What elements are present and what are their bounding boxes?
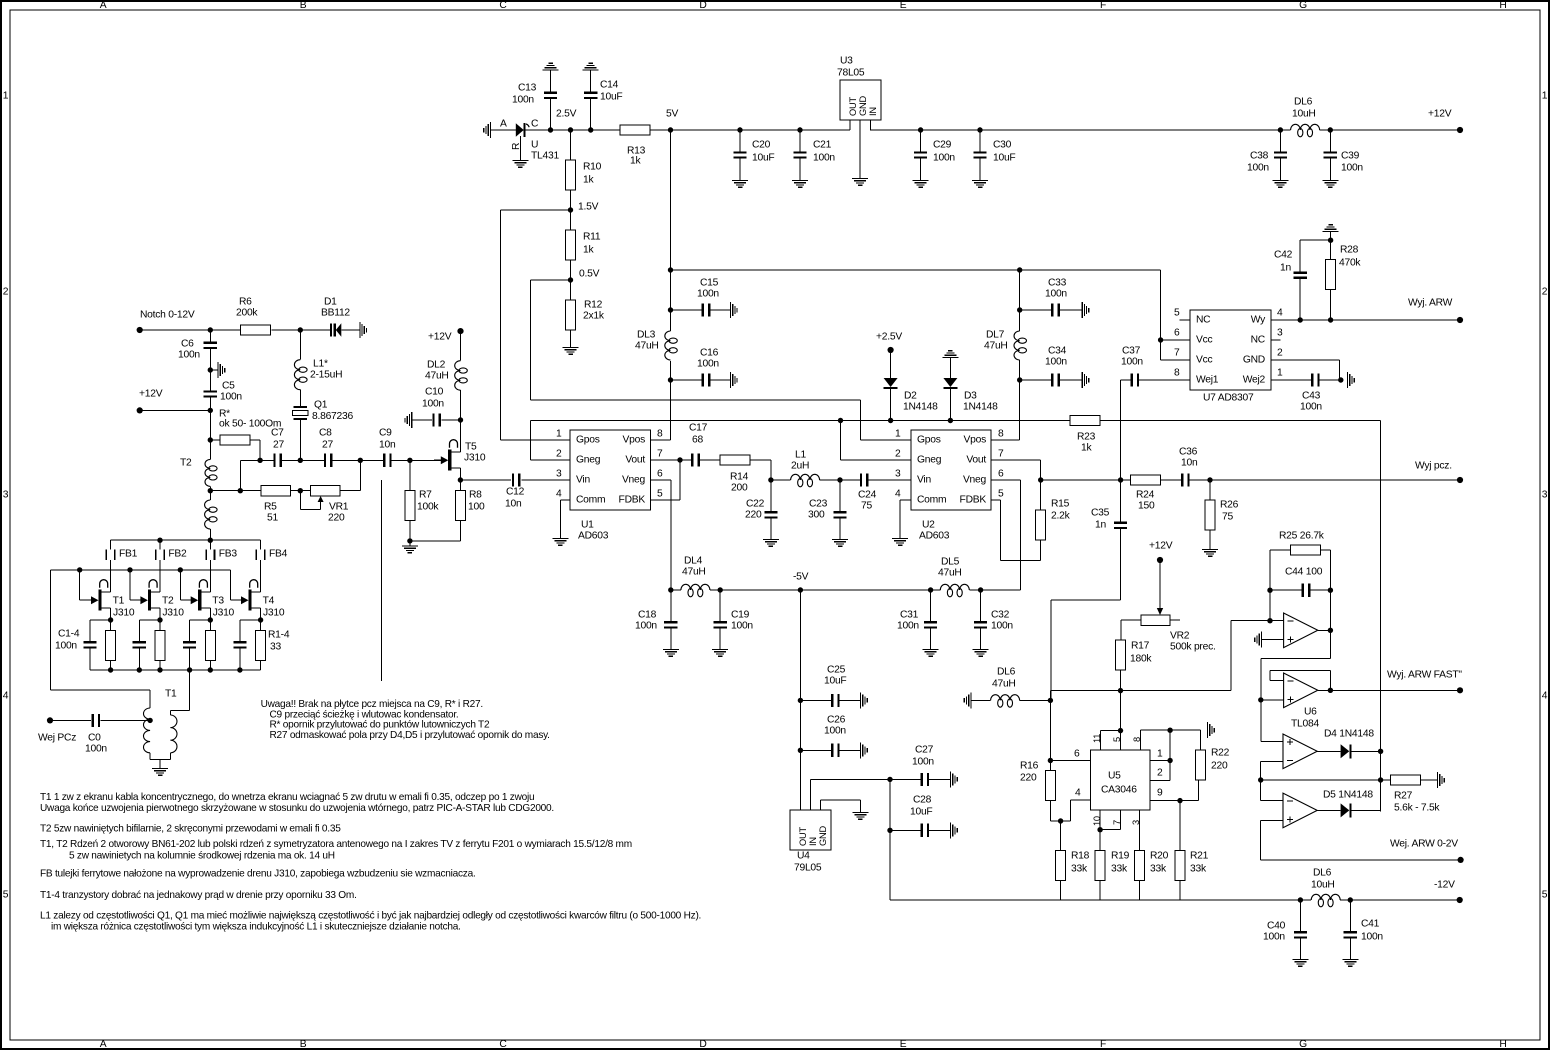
wire +12V arrow to VR2 wiper <box>1157 560 1163 615</box>
capacitor C13 <box>512 71 557 131</box>
svg-text:C16: C16 <box>700 348 719 359</box>
pin numbers U2 right <box>998 429 1004 500</box>
pin 1 of U7 <box>1277 368 1283 379</box>
svg-text:0.5V: 0.5V <box>579 269 600 280</box>
ground below U3 <box>852 178 868 186</box>
resistor R28 <box>1326 232 1362 320</box>
resistor R27 <box>1391 775 1441 814</box>
svg-text:L1*: L1* <box>313 359 328 370</box>
inductor L1 2uH <box>771 450 840 487</box>
capacitor C4 <box>233 620 246 670</box>
node DL6/C35/R16 <box>1048 698 1053 703</box>
ground right of C28 <box>950 822 958 838</box>
ground right of R27 <box>1437 772 1445 788</box>
svg-text:8.867236: 8.867236 <box>312 411 353 422</box>
transistor T1 J310 <box>84 580 135 620</box>
wire op3 inverting to R27 node <box>1258 761 1283 782</box>
amplifier U2 AD603 <box>911 430 991 542</box>
ground below C20 <box>732 180 748 188</box>
resistor R26 <box>1205 480 1239 549</box>
ground right of C43 <box>1347 372 1355 388</box>
svg-text:C26: C26 <box>827 715 846 726</box>
svg-text:R24: R24 <box>1136 490 1155 501</box>
svg-text:R20: R20 <box>1150 851 1169 862</box>
ground below C29 <box>913 180 929 188</box>
svg-text:Gneg: Gneg <box>917 455 942 466</box>
resistor R15 <box>1036 477 1071 560</box>
capacitor C17 <box>689 423 720 467</box>
svg-text:R12: R12 <box>584 300 603 311</box>
svg-text:C43: C43 <box>1302 391 1321 402</box>
op2 feedback loop <box>1270 670 1330 690</box>
capacitor C2 <box>133 620 146 670</box>
port Wyj pcz. <box>1415 461 1463 484</box>
varicap diode D1 BB112 <box>300 297 359 337</box>
svg-text:2: 2 <box>1542 287 1548 298</box>
source node T2 <box>139 617 162 622</box>
svg-text:10n: 10n <box>1181 458 1198 469</box>
svg-text:1.5V: 1.5V <box>578 202 599 213</box>
ferrite bead FB3 <box>205 540 237 592</box>
svg-text:1k: 1k <box>583 245 594 256</box>
svg-text:TL431: TL431 <box>531 151 559 162</box>
pin 9 of U5 <box>1150 780 1199 804</box>
shunt regulator U TL431 <box>511 123 559 168</box>
svg-text:H: H <box>1499 0 1506 11</box>
svg-text:R23: R23 <box>1077 432 1096 443</box>
wire R7/R8 ground bus <box>407 538 460 545</box>
port +12V (T5) <box>428 328 464 343</box>
voltage regulator U3 78L05 <box>837 56 881 179</box>
svg-text:500k prec.: 500k prec. <box>1170 642 1216 653</box>
ground right of C34 <box>1082 372 1090 388</box>
note T1-4 matching <box>40 890 357 901</box>
node 1.5V <box>568 202 599 213</box>
svg-text:1n: 1n <box>1095 520 1106 531</box>
svg-text:Vneg: Vneg <box>622 475 646 486</box>
svg-text:3: 3 <box>895 469 901 480</box>
node op2 + input <box>1258 697 1283 702</box>
pin 6 of U7 <box>1158 328 1190 343</box>
svg-text:220: 220 <box>328 513 345 524</box>
wire 2.5V/5V rail <box>491 129 1460 131</box>
svg-text:100n: 100n <box>1045 357 1067 368</box>
svg-text:1n: 1n <box>1280 263 1291 274</box>
svg-text:T5: T5 <box>465 442 477 453</box>
svg-text:8: 8 <box>1174 368 1180 379</box>
resistor R12 <box>566 280 605 347</box>
svg-text:H: H <box>1499 1039 1506 1050</box>
node R14/L1/C22 <box>768 477 773 482</box>
ground right of pin8 U5 <box>1207 722 1215 738</box>
ground below U1 Comm <box>552 538 568 546</box>
svg-text:10n: 10n <box>379 440 396 451</box>
svg-text:Wyj. ARW: Wyj. ARW <box>1408 298 1453 309</box>
svg-text:R10: R10 <box>583 162 602 173</box>
svg-text:100n: 100n <box>1045 289 1067 300</box>
svg-text:D1: D1 <box>324 297 337 308</box>
label C1-4 <box>55 629 80 652</box>
svg-text:10uH: 10uH <box>1292 109 1316 120</box>
capacitor C5 <box>204 370 243 410</box>
pin 2 of U7 <box>1277 348 1283 359</box>
svg-text:100n: 100n <box>422 399 444 410</box>
svg-text:C: C <box>531 119 539 130</box>
op-amp U6b <box>1284 673 1318 708</box>
wire 5V sub-rail y=270 <box>668 267 1161 360</box>
svg-text:-12V: -12V <box>1434 880 1455 891</box>
svg-text:5: 5 <box>998 489 1004 500</box>
inductor DL6 10uH (top) <box>1278 97 1333 137</box>
svg-text:33k: 33k <box>1071 864 1088 875</box>
svg-text:100n: 100n <box>85 744 107 755</box>
svg-text:C31: C31 <box>900 610 919 621</box>
node R5/VR1 <box>291 488 311 493</box>
wire Gneg bus <box>531 418 1381 460</box>
gate wire T4 <box>231 570 234 600</box>
capacitor C16 <box>668 348 730 387</box>
svg-text:FB1: FB1 <box>119 549 138 560</box>
pin 7 of U7 <box>1161 348 1190 361</box>
svg-text:100n: 100n <box>912 757 934 768</box>
capacitor C20 <box>733 127 774 180</box>
wire R5 row <box>210 460 261 493</box>
resistor R16 <box>1020 761 1071 822</box>
svg-text:8: 8 <box>1132 737 1142 742</box>
ground below C41 <box>1342 959 1358 967</box>
pin 4 of U5 <box>1058 788 1091 824</box>
svg-text:7: 7 <box>1112 820 1122 825</box>
svg-text:47uH: 47uH <box>938 568 962 579</box>
net -5V rail <box>668 572 1020 597</box>
svg-text:100n: 100n <box>897 621 919 632</box>
label U6 TL084 <box>1291 707 1319 730</box>
svg-text:2: 2 <box>895 449 901 460</box>
wire op4 inverting <box>1261 780 1283 800</box>
wire C27/C28 bus down to -12V bus <box>890 779 1300 900</box>
pin 3 of U7 <box>1271 328 1283 341</box>
svg-text:C10: C10 <box>425 387 444 398</box>
capacitor C37 <box>1121 346 1190 481</box>
svg-text:VR2: VR2 <box>1170 631 1190 642</box>
svg-text:A: A <box>100 0 107 11</box>
resistor R22 <box>1195 730 1229 780</box>
pin 8 of U7 <box>1174 368 1180 379</box>
svg-text:NC: NC <box>1251 335 1266 346</box>
svg-text:100n: 100n <box>824 726 846 737</box>
svg-text:Gpos: Gpos <box>917 435 941 446</box>
source node T3 <box>190 617 213 622</box>
diode D3 1N4148 <box>943 358 998 423</box>
svg-text:1k: 1k <box>1081 443 1092 454</box>
wire U2 FDBK to R15 <box>991 500 1041 560</box>
wire Notch row <box>140 327 303 332</box>
transistor T4 J310 <box>234 580 285 620</box>
ground below C31 <box>923 649 939 657</box>
capacitor C39 <box>1324 130 1364 180</box>
svg-text:AD603: AD603 <box>578 531 609 542</box>
voltage regulator U4 79L05 <box>790 810 831 874</box>
svg-text:im większa różnica częstotliwo: im większa różnica częstotliwości tym wi… <box>51 922 461 933</box>
note FB beads <box>40 868 476 879</box>
svg-text:DL5: DL5 <box>941 557 960 568</box>
capacitor C7 <box>271 428 284 467</box>
svg-text:B: B <box>300 0 307 11</box>
ground below U2 Comm <box>892 538 908 546</box>
svg-text:220: 220 <box>745 510 762 521</box>
svg-text:U6: U6 <box>1304 707 1317 718</box>
svg-text:C42: C42 <box>1274 250 1293 261</box>
wire T1 bottom to ground <box>150 760 170 768</box>
svg-text:Comm: Comm <box>576 495 605 506</box>
wire source bottom bus <box>90 667 261 672</box>
source node T4 <box>240 617 263 622</box>
svg-text:33k: 33k <box>1190 864 1207 875</box>
svg-text:2: 2 <box>556 449 562 460</box>
svg-text:C37: C37 <box>1122 346 1141 357</box>
port Wej PCz <box>38 717 76 743</box>
ground right of D1 <box>359 322 367 338</box>
svg-text:3: 3 <box>556 469 562 480</box>
wire U2 Vneg down <box>991 480 1021 590</box>
svg-text:4: 4 <box>556 489 562 500</box>
svg-text:NC: NC <box>1196 315 1211 326</box>
svg-text:2: 2 <box>1157 768 1163 779</box>
node DL2/C10/T5 drain <box>458 417 463 422</box>
svg-text:2: 2 <box>3 287 9 298</box>
svg-text:10n: 10n <box>505 499 522 510</box>
svg-text:100n: 100n <box>1121 357 1143 368</box>
resistor R25 26.7k <box>1279 531 1325 556</box>
svg-text:D: D <box>699 1039 706 1050</box>
svg-text:C: C <box>499 1039 507 1050</box>
svg-text:CA3046: CA3046 <box>1101 785 1137 796</box>
svg-text:Uwaga!! Brak na płytce pcz mie: Uwaga!! Brak na płytce pcz miejsca na C9… <box>261 699 483 710</box>
capacitor C25 <box>798 665 860 708</box>
svg-text:33k: 33k <box>1111 864 1128 875</box>
svg-text:Vpos: Vpos <box>623 435 646 446</box>
wire U2 Vout to Wyj pcz node <box>991 460 1041 480</box>
ground below C21 <box>792 180 808 188</box>
svg-text:C20: C20 <box>752 140 771 151</box>
svg-text:Vneg: Vneg <box>963 475 987 486</box>
resistor R* <box>210 435 260 460</box>
svg-text:FB4: FB4 <box>269 549 288 560</box>
svg-text:R15: R15 <box>1051 499 1070 510</box>
svg-text:10uF: 10uF <box>993 153 1015 164</box>
svg-text:C36: C36 <box>1179 447 1198 458</box>
transistor T2 J310 <box>133 580 184 620</box>
svg-text:C: C <box>499 0 507 11</box>
capacitor C44 100 <box>1270 567 1330 597</box>
svg-text:DL6: DL6 <box>1294 97 1313 108</box>
svg-text:3: 3 <box>1542 490 1548 501</box>
svg-text:C15: C15 <box>700 278 719 289</box>
svg-text:6: 6 <box>1174 328 1180 339</box>
ground below R12 <box>563 347 579 355</box>
svg-text:BB112: BB112 <box>321 308 350 319</box>
svg-text:100n: 100n <box>991 621 1013 632</box>
wire 5V down to U1 Vpos <box>651 130 671 440</box>
ground above C13 <box>543 63 559 71</box>
svg-text:200k: 200k <box>236 308 258 319</box>
ground above C14 <box>583 63 599 71</box>
svg-text:U: U <box>531 140 538 151</box>
svg-text:FDBK: FDBK <box>619 495 646 506</box>
svg-text:78L05: 78L05 <box>837 68 865 79</box>
resistor R5 <box>261 486 290 524</box>
svg-text:100n: 100n <box>697 359 719 370</box>
svg-text:5: 5 <box>3 890 9 901</box>
svg-text:100n: 100n <box>1361 932 1383 943</box>
svg-text:C29: C29 <box>933 140 952 151</box>
svg-text:T2: T2 <box>162 596 174 607</box>
svg-text:Vpos: Vpos <box>964 435 987 446</box>
capacitor C8 <box>319 428 333 467</box>
svg-text:FDBK: FDBK <box>960 495 987 506</box>
svg-text:47uH: 47uH <box>635 341 659 352</box>
row labels 1-5 <box>3 91 1548 901</box>
junction dots 2.5V rail <box>548 127 594 132</box>
ferrite bead FB4 <box>256 540 288 592</box>
op-amp U6d <box>1283 793 1317 828</box>
crystal Q1 8.867236 <box>293 400 354 461</box>
wire op1 output to op2 <box>1261 628 1333 700</box>
svg-text:C0: C0 <box>88 733 101 744</box>
svg-text:R1-4: R1-4 <box>268 630 290 641</box>
svg-text:DL2: DL2 <box>427 360 446 371</box>
wire Wyj ARW rail <box>1271 317 1460 322</box>
note cores <box>40 839 632 861</box>
svg-text:OUT: OUT <box>848 97 858 116</box>
capacitor C18 <box>635 590 677 649</box>
capacitor C36 <box>1179 447 1198 487</box>
transistor T3 J310 <box>184 580 235 620</box>
svg-text:GND: GND <box>1243 355 1265 366</box>
pin numbers U1 left <box>556 429 562 500</box>
capacitor C10 <box>405 387 461 429</box>
wire U7 GND pin to ground <box>1271 360 1340 380</box>
svg-text:2uH: 2uH <box>791 461 809 472</box>
port +12V (left) <box>137 389 163 414</box>
resistor R10 <box>566 130 602 210</box>
svg-text:R27: R27 <box>1394 791 1413 802</box>
wire op2+ to op3+ <box>1261 700 1283 741</box>
svg-text:220: 220 <box>1020 773 1037 784</box>
svg-text:33k: 33k <box>1150 864 1167 875</box>
ground right of C26 <box>860 742 868 758</box>
svg-text:3: 3 <box>1131 820 1141 825</box>
svg-text:L1 zalezy od częstotliwości Q1: L1 zalezy od częstotliwości Q1, Q1 ma mi… <box>40 910 701 921</box>
svg-text:J310: J310 <box>263 608 285 619</box>
svg-text:3: 3 <box>1277 328 1283 339</box>
svg-text:VR1: VR1 <box>329 502 349 513</box>
svg-text:R17: R17 <box>1131 641 1150 652</box>
port -12V <box>1434 880 1463 904</box>
svg-text:Gpos: Gpos <box>576 435 600 446</box>
ground below R7 <box>402 546 418 554</box>
svg-text:U7 AD8307: U7 AD8307 <box>1203 393 1254 404</box>
resistor R20 <box>1135 850 1169 900</box>
svg-text:R22: R22 <box>1211 748 1230 759</box>
svg-text:T2 5zw nawiniętych bifilarnie,: T2 5zw nawiniętych bifilarnie, 2 skręcon… <box>40 823 341 834</box>
svg-text:IN: IN <box>808 837 818 846</box>
label R* <box>219 409 281 430</box>
resistor R24 <box>1131 475 1161 512</box>
svg-text:33: 33 <box>270 642 281 653</box>
svg-text:5: 5 <box>1112 737 1122 742</box>
svg-text:C44 100: C44 100 <box>1285 567 1323 578</box>
svg-text:A: A <box>500 119 507 130</box>
svg-text:Wy: Wy <box>1251 315 1266 326</box>
svg-text:C30: C30 <box>993 140 1012 151</box>
svg-text:R6: R6 <box>239 297 252 308</box>
svg-text:C24: C24 <box>858 490 877 501</box>
svg-text:100k: 100k <box>417 502 439 513</box>
transformer T1 primary winding <box>144 689 178 760</box>
svg-text:100n: 100n <box>697 289 719 300</box>
ground right of C16 <box>730 372 738 388</box>
svg-text:Vcc: Vcc <box>1196 355 1213 366</box>
svg-text:FB3: FB3 <box>219 549 238 560</box>
svg-text:FB tulejki ferrytowe nałożone: FB tulejki ferrytowe nałożone na wyprowa… <box>40 868 476 879</box>
capacitor C33 <box>1017 278 1082 317</box>
svg-text:3: 3 <box>3 490 9 501</box>
transformer T2 <box>180 440 217 540</box>
resistor R4 <box>256 620 266 670</box>
pin 4 of U7 <box>1277 308 1283 319</box>
svg-text:8: 8 <box>657 429 663 440</box>
resistor R1 <box>106 620 116 670</box>
svg-text:C14: C14 <box>600 80 619 91</box>
svg-text:10uH: 10uH <box>1311 880 1335 891</box>
svg-text:R5: R5 <box>264 502 277 513</box>
wire gate bus <box>51 567 231 572</box>
svg-text:2x1k: 2x1k <box>583 311 605 322</box>
diode D4 1N4148 <box>1317 729 1380 759</box>
svg-text:C5: C5 <box>222 381 235 392</box>
capacitor C27 <box>887 745 950 787</box>
svg-text:C35: C35 <box>1091 508 1110 519</box>
capacitor C38 <box>1247 130 1287 180</box>
gate wire T2 <box>130 570 133 600</box>
transformer T1 secondary winding <box>170 670 189 760</box>
svg-text:D5 1N4148: D5 1N4148 <box>1323 790 1373 801</box>
ground above R28 <box>1323 224 1339 232</box>
pin 5 of U7 <box>1174 308 1190 321</box>
svg-text:F: F <box>1100 0 1106 11</box>
svg-text:T1-4 tranzystory dobrać na jed: T1-4 tranzystory dobrać na jednakowy prą… <box>40 890 357 901</box>
svg-text:J310: J310 <box>113 608 135 619</box>
svg-text:4: 4 <box>1075 788 1081 799</box>
pin 6 of U5 <box>1074 749 1080 760</box>
note L1 frequency <box>40 910 701 932</box>
svg-text:68: 68 <box>692 435 703 446</box>
svg-text:R27 odmaskować pola przy D4,D5: R27 odmaskować pola przy D4,D5 i przylut… <box>270 730 550 741</box>
ground below C32 <box>973 649 989 657</box>
port Notch 0-12V <box>137 310 195 334</box>
label R1-4 <box>268 630 290 653</box>
svg-text:E: E <box>900 0 907 11</box>
amplifier U1 AD603 <box>570 430 651 542</box>
ferrite bead FB2 <box>155 540 187 592</box>
capacitor C21 <box>793 127 835 180</box>
capacitor C0 <box>50 714 153 755</box>
capacitor C30 <box>973 127 1015 180</box>
svg-text:C6: C6 <box>181 339 194 350</box>
wire FB drain bus <box>111 538 261 543</box>
svg-text:Comm: Comm <box>917 495 946 506</box>
